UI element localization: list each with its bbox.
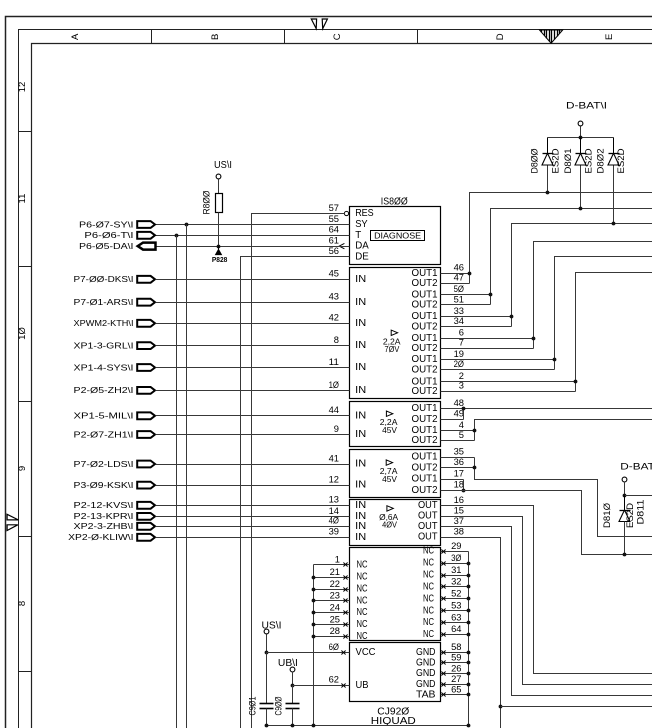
wire TAB pin 65 xyxy=(441,694,469,696)
svg-text:IS8ØØ: IS8ØØ xyxy=(381,196,408,207)
svg-text:OUT2: OUT2 xyxy=(412,343,438,354)
junction GND bus pin 58 xyxy=(467,651,471,655)
junction R800/DA xyxy=(217,245,221,249)
svg-text:IN: IN xyxy=(355,385,366,396)
svg-text:4Ø: 4Ø xyxy=(329,516,340,527)
svg-text:36: 36 xyxy=(454,457,464,468)
svg-text:1Ø: 1Ø xyxy=(17,327,28,340)
wire input to pin 14 xyxy=(156,516,350,518)
svg-text:NC: NC xyxy=(357,607,368,618)
capacitor C900 xyxy=(286,703,300,705)
amp symbol 2,2A 45V xyxy=(386,411,392,416)
DIAGNOSE box xyxy=(371,231,425,241)
svg-text:IN: IN xyxy=(355,500,366,511)
junction 48/49 xyxy=(462,407,466,411)
svg-text:45V: 45V xyxy=(382,426,397,435)
wire OUT 38 route down to bottom edge xyxy=(441,538,501,728)
junction NC bus pin 52 xyxy=(467,597,471,601)
svg-text:R8ØØ: R8ØØ xyxy=(201,191,211,215)
svg-text:8: 8 xyxy=(17,601,28,606)
svg-text:D81Ø: D81Ø xyxy=(602,503,612,528)
wire join 49 to 48 xyxy=(463,409,465,420)
wire OUT pair 46/47 upper xyxy=(441,273,470,275)
wire D-BAT to diode rail xyxy=(580,127,582,138)
svg-text:D-BAT\I: D-BAT\I xyxy=(566,101,607,112)
svg-text:29: 29 xyxy=(451,541,461,552)
wire GND pin 26 xyxy=(441,673,469,675)
svg-text:P2-12-KVS\I: P2-12-KVS\I xyxy=(74,500,134,510)
junction pair 46/47 xyxy=(468,272,472,276)
svg-text:59: 59 xyxy=(451,653,461,664)
svg-text:D8Ø1: D8Ø1 xyxy=(563,149,573,174)
svg-text:23: 23 xyxy=(330,591,340,602)
svg-text:58: 58 xyxy=(451,642,461,653)
junction pair 6/7 xyxy=(532,337,536,341)
wire OUT pair 33/34 upper xyxy=(441,316,512,318)
wire OUT pair 33/34 riser and exit right xyxy=(512,224,652,327)
svg-text:43: 43 xyxy=(329,292,339,303)
amp symbol 0,6A 40V xyxy=(387,506,393,511)
inversion bubble pin 57 xyxy=(344,211,348,215)
junction NC bus pin 31 xyxy=(467,574,471,578)
svg-text:ES2D: ES2D xyxy=(616,148,626,174)
wire NC pin 32 xyxy=(441,586,469,588)
wire OUT pair 19/20 riser and exit right xyxy=(555,257,652,370)
wire input to pin 39 xyxy=(156,537,350,539)
svg-text:31: 31 xyxy=(451,565,461,576)
wire P6-06-T to pin 64 xyxy=(156,235,350,237)
wire OUT 49 xyxy=(441,419,464,421)
junction D-BAT rail xyxy=(579,136,583,140)
svg-text:34: 34 xyxy=(454,316,465,327)
svg-text:GND: GND xyxy=(416,647,436,658)
wire NC pin 23 xyxy=(314,600,350,602)
wire NC pin 30 xyxy=(441,563,469,565)
arrow pin 61 DA xyxy=(339,243,344,248)
IC IS800 NC section box xyxy=(350,548,441,641)
wire OUT 4 xyxy=(441,430,475,432)
wire NC pin 1 xyxy=(314,564,350,566)
svg-text:13: 13 xyxy=(329,495,339,506)
svg-text:64: 64 xyxy=(329,225,340,236)
resistor R800 xyxy=(216,194,223,213)
wire OUT pair 19/20 lower xyxy=(441,369,555,371)
svg-text:47: 47 xyxy=(454,273,464,284)
wire GND pin 27 xyxy=(441,684,469,686)
junction pair 19/20 xyxy=(553,358,557,362)
IC IS800 supply section box xyxy=(350,643,441,702)
svg-text:7ØV: 7ØV xyxy=(385,345,400,354)
svg-text:42: 42 xyxy=(329,313,339,324)
svg-text:1: 1 xyxy=(335,555,340,566)
svg-text:9: 9 xyxy=(334,424,339,435)
wire OUT pair 46/47 riser and exit right xyxy=(470,193,652,284)
svg-text:3Ø: 3Ø xyxy=(451,553,462,564)
wire GND pin 59 xyxy=(441,662,469,664)
svg-text:51: 51 xyxy=(454,294,464,305)
svg-text:65: 65 xyxy=(451,685,461,696)
wire OUT pair 19/20 upper xyxy=(441,359,555,361)
svg-text:OUT1: OUT1 xyxy=(412,403,438,414)
svg-text:XP2-Ø-KLIW\I: XP2-Ø-KLIW\I xyxy=(68,532,133,542)
svg-text:UB\I: UB\I xyxy=(278,658,298,669)
junction NC bus pin 21 xyxy=(312,576,316,580)
junction NC bus pin 32 xyxy=(467,585,471,589)
svg-text:22: 22 xyxy=(330,579,340,590)
junction rail GND bus xyxy=(467,724,471,728)
svg-text:4ØV: 4ØV xyxy=(382,521,397,530)
svg-text:VCC: VCC xyxy=(356,647,376,658)
wire rail to diode D811 offpage xyxy=(625,495,652,497)
IC IS800 control section box xyxy=(350,207,441,265)
svg-text:27: 27 xyxy=(451,674,461,685)
svg-text:25: 25 xyxy=(330,614,340,625)
junction 35/36 xyxy=(473,466,477,470)
wire OUT pair 6/7 riser and exit right xyxy=(534,242,652,349)
junction rail C901 xyxy=(265,724,269,728)
svg-text:D8Ø2: D8Ø2 xyxy=(595,149,605,174)
svg-text:57: 57 xyxy=(329,203,339,214)
svg-text:XPWM2-KTH\I: XPWM2-KTH\I xyxy=(74,318,134,328)
wire NC pin 29 xyxy=(441,551,469,553)
junction rail NC bus xyxy=(312,724,316,728)
svg-text:D8ØØ: D8ØØ xyxy=(530,149,540,174)
diode D810 xyxy=(624,496,626,511)
junction TAB bus xyxy=(467,693,471,697)
wire pair 35/36 drop and exit right xyxy=(475,458,652,537)
svg-text:IN: IN xyxy=(355,521,366,532)
svg-text:5: 5 xyxy=(459,430,464,441)
svg-text:32: 32 xyxy=(451,577,461,588)
wire OUT pair 46/47 lower xyxy=(441,283,470,285)
wire OUT 15 route down and exit right xyxy=(441,517,652,685)
diode D802 xyxy=(613,138,615,154)
svg-text:39: 39 xyxy=(329,527,339,538)
wire C900 to ground rail xyxy=(292,709,294,726)
wire UB to capacitor C900 xyxy=(292,686,294,704)
svg-text:NC: NC xyxy=(423,582,434,593)
svg-text:P7-ØØ-DKS\I: P7-ØØ-DKS\I xyxy=(74,274,134,284)
svg-text:63: 63 xyxy=(451,612,461,623)
junction NC bus pin 53 xyxy=(467,609,471,613)
svg-text:P7-Ø2-LDS\I: P7-Ø2-LDS\I xyxy=(74,459,134,469)
svg-text:OUT: OUT xyxy=(418,511,438,522)
IC IS800 driver section 0.6A/40V box xyxy=(350,500,441,546)
svg-text:XP2-3-ZHB\I: XP2-3-ZHB\I xyxy=(74,521,134,531)
wire NC pin 24 xyxy=(314,612,350,614)
svg-text:NC: NC xyxy=(423,570,434,581)
junction D810 anode xyxy=(623,553,627,557)
wire bottom ground rail xyxy=(267,725,469,727)
node P828 potential arrow xyxy=(216,249,222,254)
wire OUT 35 xyxy=(441,457,475,459)
wire OUT 36 xyxy=(441,467,475,469)
junction 17/18 xyxy=(462,489,466,493)
wire input to pin 45 xyxy=(156,279,350,281)
svg-text:SY: SY xyxy=(355,219,368,230)
svg-text:1Ø: 1Ø xyxy=(329,380,340,391)
svg-text:XP1-3-GRL\I: XP1-3-GRL\I xyxy=(74,340,134,350)
svg-text:ES2D: ES2D xyxy=(550,148,560,174)
svg-text:41: 41 xyxy=(329,453,339,464)
svg-text:OUT1: OUT1 xyxy=(412,452,438,463)
svg-text:IN: IN xyxy=(355,410,366,421)
svg-text:US\I: US\I xyxy=(214,160,232,171)
wire OUT pair 50/51 lower xyxy=(441,304,491,306)
svg-text:IN: IN xyxy=(355,274,366,285)
svg-text:RES: RES xyxy=(355,208,374,219)
svg-text:DA: DA xyxy=(355,241,369,252)
junction D801 anode xyxy=(579,207,583,211)
svg-text:45: 45 xyxy=(329,269,339,280)
svg-text:DE: DE xyxy=(355,251,369,262)
junction NC bus pin 25 xyxy=(312,623,316,627)
junction NC bus pin 64 xyxy=(467,633,471,637)
svg-text:37: 37 xyxy=(454,516,464,527)
svg-text:UB: UB xyxy=(356,680,369,691)
junction NC bus pin 23 xyxy=(312,599,316,603)
svg-text:NC: NC xyxy=(357,619,368,630)
svg-text:NC: NC xyxy=(357,572,368,583)
svg-text:NC: NC xyxy=(357,584,368,595)
svg-text:OUT2: OUT2 xyxy=(412,300,438,311)
wire OUT 38 branch exit right xyxy=(501,706,652,708)
wire DE net from bottom edge to pin 56 xyxy=(241,257,350,728)
wire OUT 18 exit right to D-BAT diode D810 xyxy=(441,491,652,555)
wire OUT pair 50/51 upper xyxy=(441,294,491,296)
junction GND bus pin 59 xyxy=(467,661,471,665)
svg-text:OUT2: OUT2 xyxy=(412,386,438,397)
svg-text:E: E xyxy=(604,34,615,40)
wire NC pin 52 xyxy=(441,598,469,600)
svg-text:49: 49 xyxy=(454,409,464,420)
wire US to R800 xyxy=(218,180,220,194)
svg-text:IN: IN xyxy=(355,532,366,543)
svg-text:IN: IN xyxy=(355,318,366,329)
svg-text:OUT2: OUT2 xyxy=(412,485,438,496)
svg-text:P6-Ø6-T\I: P6-Ø6-T\I xyxy=(84,230,133,240)
svg-text:15: 15 xyxy=(454,505,464,516)
junction D800 anode xyxy=(546,191,550,195)
IC IS800 driver section 2.2A/45V box xyxy=(350,402,441,447)
svg-text:17: 17 xyxy=(454,468,464,479)
wire OUT 16 route down and exit right xyxy=(441,506,652,674)
svg-text:IN: IN xyxy=(355,480,366,491)
svg-text:IN: IN xyxy=(355,297,366,308)
svg-text:TAB: TAB xyxy=(416,689,436,700)
svg-text:IN: IN xyxy=(355,459,366,470)
wire input to pin 12 xyxy=(156,485,350,487)
wire NC pin 63 xyxy=(441,622,469,624)
svg-text:9: 9 xyxy=(17,466,28,471)
wire US to capacitor C901 xyxy=(266,653,268,704)
wire NC pin 53 xyxy=(441,610,469,612)
wire R800 to DA net xyxy=(218,213,220,247)
wire junction on T net xyxy=(175,234,179,238)
svg-text:35: 35 xyxy=(454,447,464,458)
svg-text:38: 38 xyxy=(454,526,464,537)
svg-text:IN: IN xyxy=(355,362,366,373)
svg-text:OUT2: OUT2 xyxy=(412,364,438,375)
svg-text:11: 11 xyxy=(329,357,339,368)
svg-text:OUT2: OUT2 xyxy=(412,414,438,425)
wire OUT pair 33/34 lower xyxy=(441,326,512,328)
svg-text:IN: IN xyxy=(355,429,366,440)
wire OUT pair 2/3 upper xyxy=(441,381,576,383)
svg-text:D: D xyxy=(495,33,506,40)
svg-text:C9ØØ: C9ØØ xyxy=(273,697,283,716)
wire NC left bus xyxy=(313,565,315,726)
diode D801 xyxy=(580,138,582,154)
svg-text:NC: NC xyxy=(357,631,368,642)
svg-text:55: 55 xyxy=(329,214,339,225)
junction NC bus pin 24 xyxy=(312,611,316,615)
wire NC pin 28 xyxy=(314,636,350,638)
svg-text:NC: NC xyxy=(423,546,434,557)
wire join 17 to 18 xyxy=(463,480,465,491)
svg-text:6Ø: 6Ø xyxy=(329,642,340,653)
svg-text:P2-13-KPR\I: P2-13-KPR\I xyxy=(74,511,134,521)
wire GND pin 58 xyxy=(441,652,469,654)
svg-text:P2-Ø5-ZH2\I: P2-Ø5-ZH2\I xyxy=(74,385,134,395)
svg-text:P828: P828 xyxy=(212,255,228,264)
wire input to pin 13 xyxy=(156,505,350,507)
svg-text:D811: D811 xyxy=(636,500,646,525)
svg-text:P3-Ø9-KSK\I: P3-Ø9-KSK\I xyxy=(74,480,134,490)
svg-text:24: 24 xyxy=(330,602,341,613)
wire junction on SY net xyxy=(185,223,189,227)
junction NC bus pin 30 xyxy=(467,562,471,566)
svg-text:XP1-4-SYS\I: XP1-4-SYS\I xyxy=(74,362,134,372)
svg-text:NC: NC xyxy=(423,594,434,605)
svg-text:GND: GND xyxy=(416,679,436,690)
wire OUT 17 xyxy=(441,479,464,481)
svg-text:2Ø: 2Ø xyxy=(454,359,465,370)
svg-text:26: 26 xyxy=(451,663,461,674)
svg-text:44: 44 xyxy=(329,405,340,416)
wire input to pin 8 xyxy=(156,345,350,347)
svg-text:NC: NC xyxy=(357,596,368,607)
wire OUT pair 50/51 riser and exit right xyxy=(491,209,652,305)
wire NC pin 25 xyxy=(314,624,350,626)
svg-text:OUT1: OUT1 xyxy=(412,474,438,485)
wire OUT pair 2/3 riser and exit right xyxy=(576,273,652,392)
wire UB to pin 62 xyxy=(292,672,294,686)
wire D-BAT to rail xyxy=(624,482,626,496)
svg-text:GND: GND xyxy=(416,657,436,668)
wire OUT 48 exit right xyxy=(441,408,652,410)
svg-text:ES2D: ES2D xyxy=(625,502,635,528)
svg-text:OUT2: OUT2 xyxy=(412,462,438,473)
wire input to pin 42 xyxy=(156,323,350,325)
wire C901 to ground rail xyxy=(266,709,268,726)
svg-text:8: 8 xyxy=(334,335,339,346)
junction D-BAT bottom rail xyxy=(623,494,627,498)
svg-text:62: 62 xyxy=(329,675,339,686)
amp symbol 2,7A 45V xyxy=(386,460,392,465)
svg-text:NC: NC xyxy=(423,558,434,569)
wire P6-05-DA to pin 61 xyxy=(156,246,350,248)
junction 4/5 xyxy=(473,429,477,433)
svg-text:D-BAT\I: D-BAT\I xyxy=(620,462,652,473)
IC IS800 driver section 2.7A/45V box xyxy=(350,450,441,498)
diode D800 xyxy=(547,138,549,154)
svg-text:C: C xyxy=(332,33,343,40)
junction D802 anode xyxy=(612,222,616,226)
wire OUT pair 6/7 lower xyxy=(441,348,534,350)
wire diode cathode rail xyxy=(548,137,614,139)
svg-text:OUT2: OUT2 xyxy=(412,321,438,332)
amp symbol 2,2A 70V xyxy=(391,330,397,335)
wire pair 4/5 riser and exit right xyxy=(475,420,652,441)
wire input to pin 10 xyxy=(156,390,350,392)
junction NC bus pin 28 xyxy=(312,635,316,639)
junction rail C900 xyxy=(291,724,295,728)
svg-text:C9Ø1: C9Ø1 xyxy=(247,697,257,716)
svg-text:XP1-5-MIL\I: XP1-5-MIL\I xyxy=(74,411,134,421)
wire OUT 5 xyxy=(441,440,475,442)
svg-text:DIAGNOSE: DIAGNOSE xyxy=(374,231,422,240)
svg-text:NC: NC xyxy=(357,559,368,570)
wire RES net from bottom edge to pin 57 xyxy=(252,214,345,728)
svg-text:NC: NC xyxy=(423,629,434,640)
wire NC right bus xyxy=(468,552,470,726)
svg-text:64: 64 xyxy=(451,624,462,635)
svg-text:61: 61 xyxy=(329,236,339,247)
svg-text:52: 52 xyxy=(451,589,461,600)
junction pair 33/34 xyxy=(510,315,514,319)
IC IS800 driver section 2.2A/70V box xyxy=(350,268,441,399)
svg-text:12: 12 xyxy=(329,475,339,486)
svg-text:OUT2: OUT2 xyxy=(412,278,438,289)
svg-text:12: 12 xyxy=(17,82,28,93)
junction GND bus pin 26 xyxy=(467,672,471,676)
wire NC pin 21 xyxy=(314,577,350,579)
svg-text:28: 28 xyxy=(330,626,340,637)
wire OUT 37 route down and exit right xyxy=(441,527,652,696)
svg-text:OUT: OUT xyxy=(418,532,438,543)
svg-text:GND: GND xyxy=(416,668,436,679)
svg-text:OUT2: OUT2 xyxy=(412,435,438,446)
svg-text:ES2D: ES2D xyxy=(584,148,594,174)
capacitor C901 xyxy=(260,703,274,705)
svg-text:B: B xyxy=(210,34,221,40)
wire input to pin 43 xyxy=(156,302,350,304)
wire NC pin 31 xyxy=(441,575,469,577)
junction NC bus pin 63 xyxy=(467,621,471,625)
wire OUT pair 6/7 upper xyxy=(441,338,534,340)
svg-text:P7-Ø1-ARS\I: P7-Ø1-ARS\I xyxy=(74,297,134,307)
svg-text:NC: NC xyxy=(423,605,434,616)
wire input to pin 40 xyxy=(156,526,350,528)
svg-text:P2-Ø7-ZH1\I: P2-Ø7-ZH1\I xyxy=(74,429,134,439)
svg-text:11: 11 xyxy=(17,194,28,204)
junction pair 2/3 xyxy=(574,380,578,384)
junction GND bus pin 27 xyxy=(467,683,471,687)
wire input to pin 9 xyxy=(156,434,350,436)
svg-text:OUT: OUT xyxy=(418,500,438,511)
junction pair 50/51 xyxy=(489,293,493,297)
wire input to pin 11 xyxy=(156,367,350,369)
svg-text:16: 16 xyxy=(454,495,464,506)
svg-text:P6-Ø7-SY\I: P6-Ø7-SY\I xyxy=(79,219,134,229)
wire T branch down to bottom edge xyxy=(176,236,178,728)
svg-text:NC: NC xyxy=(423,617,434,628)
wire P6-07-SY to pin 55 xyxy=(156,224,350,226)
svg-text:7: 7 xyxy=(459,338,464,349)
svg-text:21: 21 xyxy=(330,567,340,578)
svg-text:P6-Ø5-DA\I: P6-Ø5-DA\I xyxy=(79,241,134,251)
